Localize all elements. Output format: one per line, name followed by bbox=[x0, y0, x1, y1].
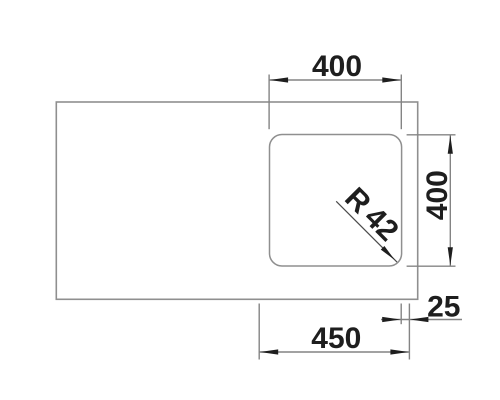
svg-text:400: 400 bbox=[421, 170, 454, 220]
svg-text:450: 450 bbox=[311, 322, 361, 355]
svg-text:25: 25 bbox=[427, 291, 460, 324]
svg-text:400: 400 bbox=[312, 50, 362, 83]
